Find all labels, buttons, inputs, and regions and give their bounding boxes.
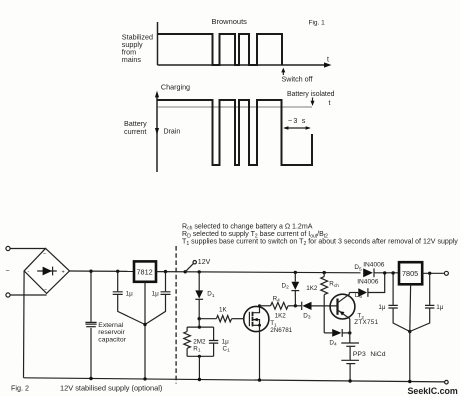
svg-text:1K2: 1K2 bbox=[275, 312, 287, 319]
5V output terminal bbox=[444, 271, 448, 275]
svg-text:1K2: 1K2 bbox=[306, 285, 318, 292]
wire: 7805 output bbox=[422, 272, 444, 274]
fig1 supply waveform bbox=[158, 34, 283, 65]
wire: 7812 input cap to ground vee bbox=[118, 295, 145, 325]
node: gate node below D1 bbox=[198, 317, 201, 320]
svg-text:~: ~ bbox=[44, 288, 47, 294]
node: battery on 0V rail bbox=[348, 379, 351, 382]
wire: 7805 input cap to ground vee bbox=[393, 309, 410, 332]
label: External reservoir capacitor bbox=[98, 322, 126, 344]
transistor T1 MOSFET 2N6781 bbox=[244, 306, 269, 331]
node: 7805 ground vee join bbox=[408, 330, 411, 333]
T1 drain link bbox=[253, 306, 260, 313]
svg-text:IN4006: IN4006 bbox=[363, 262, 385, 269]
svg-text:+: + bbox=[62, 269, 65, 275]
diode D6 IN4006 bbox=[358, 288, 367, 297]
svg-text:current: current bbox=[124, 127, 146, 136]
wire: 7812 output cap to ground vee bbox=[145, 295, 166, 325]
wire: down to 7812 output cap bbox=[165, 272, 167, 292]
label: Stabilized supply from mains bbox=[122, 32, 153, 64]
AC input terminal (top) bbox=[6, 246, 10, 250]
battery PP3 NiCd cell 1 bbox=[341, 342, 359, 344]
node: T1 drain to R4 bbox=[258, 304, 261, 307]
wire: 7812 ground pin down to 0V rail bbox=[144, 282, 146, 379]
wire: 7805 ground pin to 0V rail bbox=[409, 284, 412, 381]
diode D1 bbox=[198, 272, 200, 291]
capacitor 1u (7812 input) bbox=[113, 292, 123, 295]
T1 channel bar segments bbox=[252, 312, 254, 327]
svg-text:Drain: Drain bbox=[164, 129, 181, 136]
T1 body link with arrow bbox=[253, 320, 260, 326]
wire: down to 7812 input cap bbox=[117, 271, 119, 291]
node: Rch tap on rail bbox=[323, 271, 326, 274]
svg-text:1μ: 1μ bbox=[436, 304, 444, 311]
dashed separator line bbox=[175, 246, 177, 384]
node: 7805 ground on 0V rail bbox=[408, 380, 411, 383]
0V bottom rail bbox=[24, 378, 447, 382]
T1 gate bar bbox=[248, 312, 250, 326]
node: on 0V rail bbox=[198, 378, 201, 381]
svg-text:Fig. 1: Fig. 1 bbox=[309, 20, 326, 27]
bridge inner diode bbox=[37, 270, 57, 272]
T2 emitter lead with arrow bbox=[338, 310, 350, 319]
svg-text:mains: mains bbox=[122, 55, 142, 64]
capacitor 1u (7805 output) bbox=[425, 305, 434, 308]
wire: diagonal to 12V terminal bbox=[185, 263, 193, 272]
diode D2 bbox=[294, 272, 296, 281]
SECTION: Fig.2 notes text bbox=[182, 223, 458, 247]
zero-current thin line bbox=[157, 106, 312, 108]
svg-text:Fig. 2: Fig. 2 bbox=[11, 384, 29, 393]
svg-text:12V: 12V bbox=[198, 259, 211, 266]
svg-text:1μ: 1μ bbox=[126, 290, 134, 297]
node: 7812 ground vee join bbox=[143, 323, 146, 326]
3s dimension arrow bbox=[285, 127, 310, 129]
wire: Rch down crossing base wire to D4 bbox=[323, 295, 325, 333]
node: D2 tap on rail bbox=[294, 271, 297, 274]
node: 7812 ground on 0V rail bbox=[143, 377, 146, 380]
diode D5 IN4006 bbox=[363, 268, 373, 277]
svg-text:ZTX751: ZTX751 bbox=[354, 319, 378, 326]
svg-text:t: t bbox=[327, 57, 329, 64]
label: Battery current bbox=[124, 119, 147, 136]
node: external reservoir cap tap bbox=[89, 270, 92, 273]
wire: T1 source down to 0V rail bbox=[259, 325, 261, 380]
drain arrowhead on axis bbox=[155, 128, 159, 135]
svg-text:Battery isolated: Battery isolated bbox=[287, 91, 335, 98]
fig1 t-axis arrowhead bbox=[324, 62, 332, 67]
node: 7805 input cap tap bbox=[391, 271, 394, 274]
regulator 7812 bbox=[134, 261, 156, 281]
wire: 7805 output cap to ground vee bbox=[410, 309, 430, 332]
svg-text:External: External bbox=[98, 322, 123, 329]
resistor Rch bbox=[323, 273, 325, 277]
svg-text:PP3: PP3 bbox=[353, 351, 366, 358]
wire: top terminal to bridge top corner bbox=[10, 248, 46, 250]
svg-text:1μ: 1μ bbox=[152, 290, 160, 297]
node: D6 joins rail bbox=[383, 271, 386, 274]
wire: battery to 0V rail bbox=[349, 364, 351, 381]
R1C1 bottom bar bbox=[187, 355, 214, 357]
svg-text:NiCd: NiCd bbox=[370, 351, 385, 358]
node: 7812 input cap tap bbox=[116, 270, 119, 273]
svg-text:7812: 7812 bbox=[137, 268, 153, 277]
node: external cap on 0V rail bbox=[89, 377, 92, 380]
T2 collector lead bbox=[338, 293, 350, 303]
capacitor 1u (7812 output) bbox=[161, 292, 171, 295]
fig2 axis up arrowhead bbox=[155, 91, 159, 98]
svg-text:1K: 1K bbox=[219, 307, 228, 314]
node: T1 source on 0V rail bbox=[258, 378, 261, 381]
resistor 1K (gate series) bbox=[199, 318, 216, 320]
svg-text:IN4006: IN4006 bbox=[357, 279, 379, 286]
battery isolated arrow bbox=[312, 98, 314, 102]
svg-text:Brownouts: Brownouts bbox=[212, 17, 248, 26]
svg-text:-: - bbox=[28, 269, 30, 275]
capacitor C1 1u bbox=[213, 327, 215, 340]
T1 source link bbox=[253, 324, 260, 326]
wire: down to 7805 input cap bbox=[392, 273, 394, 305]
node: 7812 output cap tap bbox=[164, 270, 167, 273]
wire: gate node down to R1C1 top bbox=[198, 319, 200, 327]
svg-text:SeekIC.com: SeekIC.com bbox=[408, 386, 458, 396]
wire: bottom terminal to bridge bottom corner bbox=[10, 294, 47, 296]
wire: T2 emitter down to battery bbox=[349, 319, 351, 343]
diode D3 bbox=[295, 305, 301, 307]
wire: bridge left corner down to 0V rail bbox=[23, 271, 26, 378]
wire: T2 collector to D6 bbox=[349, 292, 358, 294]
svg-text:2N6781: 2N6781 bbox=[270, 327, 293, 334]
node: D4 joins T2 emitter line bbox=[348, 331, 351, 334]
regulator 7805 bbox=[399, 262, 422, 284]
svg-text:12V stabilised supply (optiona: 12V stabilised supply (optional) bbox=[60, 384, 162, 393]
bridge rectifier diamond bbox=[24, 248, 69, 293]
wire: bridge right corner to 7812 input bbox=[70, 270, 135, 272]
diode D4 bbox=[324, 332, 332, 334]
AC input terminal (bottom) bbox=[6, 293, 10, 297]
R1C1 top bar bbox=[187, 326, 214, 328]
svg-text:Switch off: Switch off bbox=[282, 74, 313, 83]
capacitor 1u (7805 input) bbox=[388, 305, 397, 308]
wire between cells bbox=[349, 346, 351, 360]
svg-text:Charging: Charging bbox=[161, 83, 190, 92]
transistor T2 ZTX751 bbox=[330, 294, 355, 319]
fig1 vertical axis bbox=[157, 22, 159, 65]
node: 12V tap on rail bbox=[184, 270, 187, 273]
battery PP3 NiCd cell 2 bbox=[341, 359, 359, 361]
svg-text:1μ: 1μ bbox=[378, 304, 386, 311]
svg-text:7805: 7805 bbox=[402, 269, 418, 278]
resistor R4 1K2 bbox=[260, 305, 271, 307]
resistor R1 2M2 bbox=[186, 327, 188, 331]
fig2 vertical axis bbox=[156, 94, 158, 172]
node A: R4 / D2 / D3 junction bbox=[294, 304, 297, 307]
T2 base bar bbox=[336, 299, 338, 315]
svg-text:~: ~ bbox=[43, 252, 46, 258]
0V output terminal bbox=[445, 380, 449, 384]
wire: down to external reservoir capacitor bbox=[90, 271, 92, 322]
svg-text:capacitor: capacitor bbox=[98, 336, 126, 343]
svg-text:~3 s: ~3 s bbox=[288, 116, 307, 125]
wire: R1C1 bottom to 0V rail bbox=[198, 356, 200, 379]
battery current waveform bbox=[157, 100, 312, 165]
wire: 7812 output to rail bbox=[156, 272, 361, 273]
svg-text:~: ~ bbox=[6, 268, 10, 275]
node: 7805 output cap tap bbox=[428, 272, 431, 275]
switch off arrow bbox=[282, 70, 284, 75]
fig1 time axis with arrow bbox=[158, 64, 328, 66]
svg-text:reservoir: reservoir bbox=[98, 329, 125, 336]
node: D1 tap on rail bbox=[198, 270, 201, 273]
wire: down to 7805 output cap bbox=[429, 273, 431, 305]
12V terminal circle bbox=[193, 261, 196, 264]
wire: external cap to 0V rail bbox=[90, 328, 92, 379]
svg-text:t: t bbox=[329, 100, 331, 107]
external reservoir capacitor bbox=[85, 322, 96, 324]
